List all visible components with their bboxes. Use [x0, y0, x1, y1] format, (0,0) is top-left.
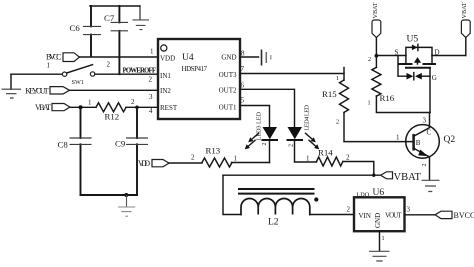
svg-text:1: 1 — [382, 235, 385, 242]
svg-text:KEYOUT: KEYOUT — [25, 86, 49, 95]
svg-text:B: B — [416, 139, 421, 147]
svg-text:SW1: SW1 — [72, 79, 84, 86]
svg-text:LED3 LED: LED3 LED — [256, 111, 263, 140]
svg-text:R14: R14 — [318, 148, 333, 158]
svg-text:BVCC: BVCC — [46, 53, 62, 62]
svg-text:VOUT: VOUT — [385, 212, 402, 220]
svg-text:2: 2 — [191, 154, 195, 162]
svg-text:6: 6 — [241, 82, 245, 90]
svg-text:C6: C6 — [70, 23, 81, 33]
svg-text:VDD: VDD — [160, 55, 175, 63]
svg-text:D: D — [435, 48, 440, 56]
svg-text:1: 1 — [306, 155, 310, 163]
svg-text:POWEROFF: POWEROFF — [123, 68, 157, 75]
svg-text:Q2: Q2 — [444, 135, 456, 145]
svg-text:1: 1 — [396, 134, 400, 142]
svg-text:2: 2 — [346, 154, 350, 162]
svg-text:1: 1 — [368, 100, 371, 107]
svg-text:2: 2 — [347, 206, 351, 214]
svg-text:VIN: VIN — [359, 212, 371, 220]
svg-text:VBAT: VBAT — [35, 103, 51, 112]
svg-text:2: 2 — [288, 144, 295, 147]
svg-text:LED4 LED: LED4 LED — [304, 104, 311, 130]
svg-text:U4: U4 — [182, 53, 194, 63]
svg-text:L2: L2 — [268, 218, 279, 228]
svg-text:HDSP417: HDSP417 — [182, 65, 208, 73]
svg-text:8: 8 — [241, 49, 245, 57]
svg-text:2: 2 — [336, 119, 339, 126]
svg-text:2: 2 — [107, 61, 111, 69]
svg-text:1: 1 — [150, 47, 154, 55]
svg-text:OUT1: OUT1 — [219, 103, 237, 111]
svg-text:3: 3 — [149, 93, 153, 101]
svg-text:U6: U6 — [373, 188, 385, 198]
svg-text:OUT2: OUT2 — [219, 86, 237, 94]
svg-text:1: 1 — [234, 155, 238, 163]
svg-text:7: 7 — [241, 65, 245, 73]
svg-text:2: 2 — [261, 142, 268, 145]
svg-text:C: C — [427, 129, 432, 137]
svg-text:GND: GND — [374, 213, 382, 228]
svg-text:OUT3: OUT3 — [219, 71, 237, 79]
svg-text:1: 1 — [88, 99, 92, 107]
svg-text:C9: C9 — [115, 139, 126, 149]
svg-text:2: 2 — [149, 75, 153, 83]
svg-text:VBAT: VBAT — [372, 2, 379, 18]
svg-text:LDO: LDO — [357, 191, 370, 198]
svg-text:GND: GND — [221, 54, 236, 62]
svg-text:BVCC: BVCC — [454, 211, 474, 220]
svg-text:3: 3 — [423, 117, 427, 125]
svg-text:5: 5 — [241, 97, 245, 105]
svg-text:2: 2 — [421, 163, 428, 166]
svg-text:2: 2 — [368, 56, 371, 63]
svg-text:VBAT: VBAT — [394, 172, 422, 183]
svg-text:C7: C7 — [104, 13, 115, 23]
svg-text:R12: R12 — [105, 111, 120, 121]
svg-text:2: 2 — [131, 98, 135, 106]
svg-text:IN2: IN2 — [160, 87, 171, 95]
svg-text:4: 4 — [149, 107, 153, 115]
svg-text:R16: R16 — [380, 93, 395, 103]
svg-text:1: 1 — [336, 75, 339, 82]
svg-text:IN1: IN1 — [160, 72, 171, 80]
svg-text:1: 1 — [47, 62, 51, 70]
svg-text:VBAT: VBAT — [461, 2, 468, 18]
svg-text:R15: R15 — [322, 89, 337, 99]
svg-text:C8: C8 — [58, 140, 69, 150]
svg-text:3: 3 — [407, 206, 411, 214]
svg-text:G: G — [432, 74, 437, 82]
svg-text:VDD: VDD — [138, 159, 150, 168]
svg-text:REST: REST — [160, 104, 178, 112]
svg-text:U5: U5 — [407, 35, 419, 45]
svg-text:R13: R13 — [206, 146, 221, 156]
